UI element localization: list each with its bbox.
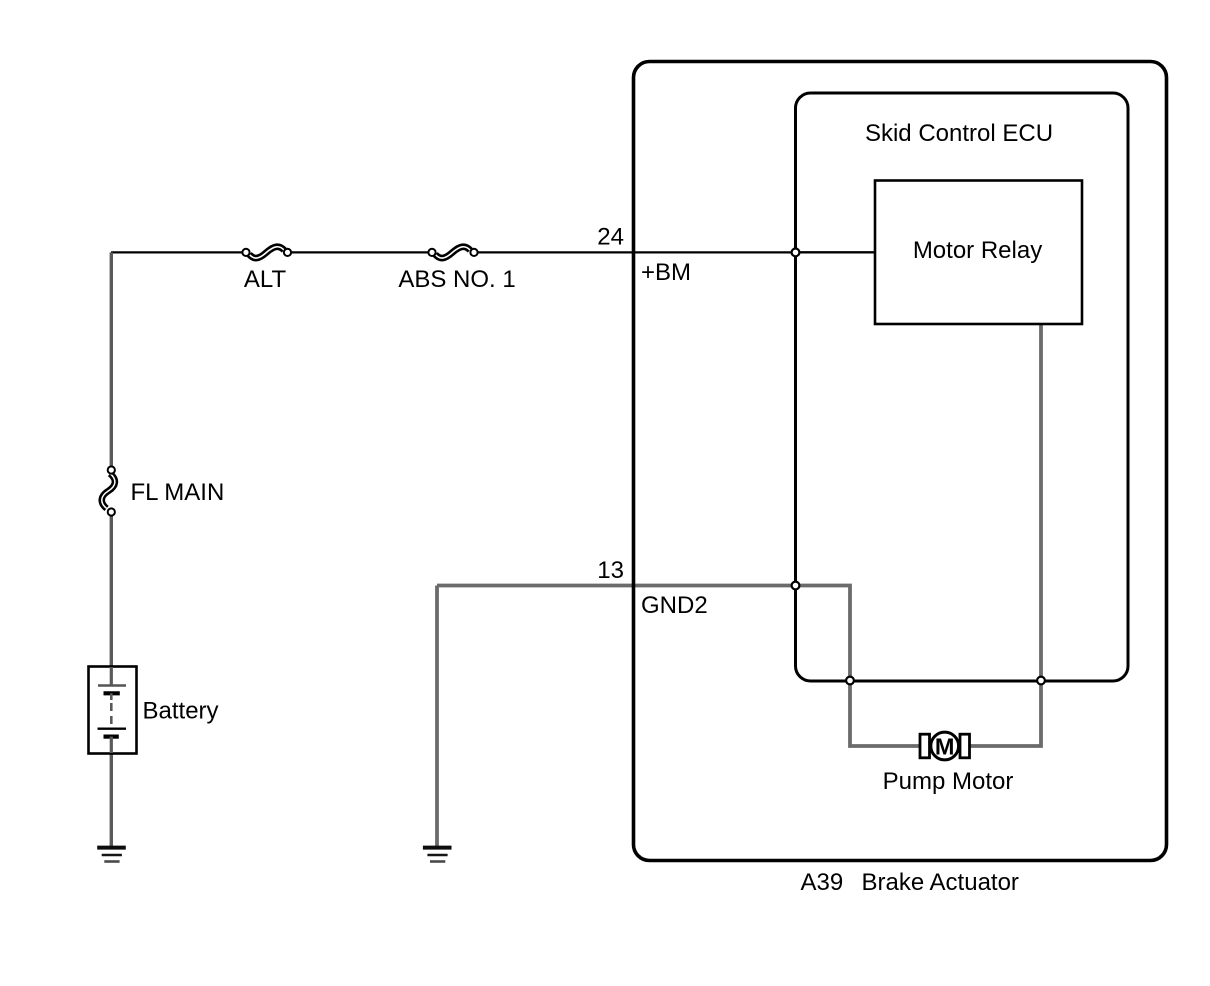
svg-text:M: M [935, 733, 955, 759]
ground left (battery ground) [97, 848, 126, 862]
pump motor M [920, 732, 970, 760]
wire GND2 internal jog [796, 586, 851, 681]
svg-text:24: 24 [597, 224, 624, 251]
svg-text:Pump Motor: Pump Motor [883, 768, 1014, 795]
wire pump motor left leg [850, 681, 919, 747]
svg-text:13: 13 [597, 557, 624, 584]
node pin 13 junction [792, 582, 800, 590]
node pin 24 junction [792, 249, 800, 257]
svg-text:FL MAIN: FL MAIN [131, 479, 225, 506]
svg-text:ABS NO. 1: ABS NO. 1 [398, 266, 515, 293]
svg-text:Battery: Battery [143, 698, 219, 725]
Motor Relay box [875, 181, 1082, 325]
battery [89, 667, 137, 754]
outer box A39 Brake Actuator [634, 62, 1167, 861]
wire motor relay to pump motor right leg [970, 324, 1041, 746]
svg-text:Motor Relay: Motor Relay [913, 237, 1042, 264]
wire node 24 to Motor Relay [796, 251, 876, 253]
node ECU bottom right [1037, 677, 1045, 685]
wire battery feed top horizontal (B+ to +BM pin 24) [111, 251, 875, 253]
svg-text:A39: A39 [801, 869, 844, 896]
wire left vertical battery drop [110, 252, 113, 846]
svg-text:GND2: GND2 [641, 592, 708, 619]
fuse ALT [242, 247, 291, 258]
inner box Skid Control ECU [796, 93, 1129, 681]
node ECU bottom left [846, 677, 854, 685]
wire GND2 horizontal [437, 584, 796, 588]
svg-text:+BM: +BM [641, 259, 691, 286]
ground right (GND2 ground) [423, 848, 452, 862]
wire GND2 vertical to ground [435, 586, 439, 847]
svg-text:Skid Control ECU: Skid Control ECU [865, 120, 1053, 147]
svg-text:Brake Actuator: Brake Actuator [862, 869, 1019, 896]
fuse ABS NO. 1 [428, 247, 477, 258]
svg-text:ALT: ALT [244, 266, 287, 293]
fusible link FL MAIN [102, 466, 115, 515]
